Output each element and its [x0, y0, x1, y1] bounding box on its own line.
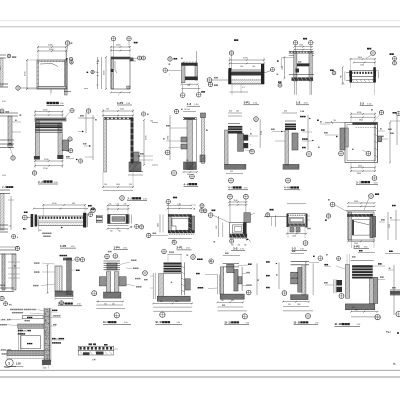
C2 left caps [31, 214, 34, 227]
A7 bubble [371, 51, 376, 56]
D-c foot [104, 292, 121, 298]
D-d left facade bars [153, 273, 155, 299]
svg-text:1500: 1500 [297, 304, 301, 306]
A1 outer square [37, 60, 67, 89]
A3 top band [181, 63, 197, 66]
sheet bottom border line 1 [0, 369, 400, 371]
svg-text:1400: 1400 [292, 235, 296, 237]
B4 foot [129, 162, 141, 172]
E1 parapet wall speckled [44, 308, 50, 362]
svg-text:700: 700 [106, 109, 109, 111]
C8 bottom [348, 240, 374, 242]
svg-text:1500: 1500 [360, 65, 364, 67]
svg-text:150: 150 [39, 230, 42, 232]
D-c bottom dims [96, 301, 123, 303]
D-g mid-left bubble [339, 293, 344, 298]
detail D-c 11-11截面图 [108, 251, 112, 252]
svg-text:1:50: 1:50 [246, 322, 250, 324]
A4 left bubble+leader [207, 78, 212, 83]
B2 bubble bottom [32, 171, 36, 175]
svg-text:1-2: 1-2 [187, 102, 192, 106]
C6 right wall dark [243, 223, 246, 238]
D-g slab dark striped [352, 265, 373, 278]
C4 bottom dims [108, 225, 129, 227]
C5 left dims [159, 215, 161, 233]
E1 gravel band [18, 324, 44, 328]
D-e bottom dims [218, 301, 244, 303]
D-c coping [104, 260, 121, 262]
C7 bubble bottom-right [303, 241, 308, 246]
C8 inner rect [352, 220, 370, 235]
B2 bubbles right [68, 137, 72, 141]
A7 body bar [350, 71, 376, 77]
C5 bubble bottom [172, 240, 176, 244]
D-a left element [55, 266, 62, 291]
A4 body bar [229, 70, 265, 84]
B2 wall feet [34, 156, 40, 160]
C6 bubble bottom-left [230, 239, 234, 243]
C6 corner arrow [246, 239, 248, 241]
D-a bottom dims [55, 298, 73, 300]
svg-text:7: 7 [250, 129, 251, 131]
D-e title [224, 320, 239, 324]
svg-text:618: 618 [231, 300, 234, 302]
svg-text:1100: 1100 [234, 200, 238, 202]
C5 bubble bottom-left [147, 233, 151, 237]
D-g bubble bottom-right [375, 314, 380, 319]
detail D-e 13-13截面图 [197, 259, 203, 260]
svg-text:600: 600 [352, 307, 355, 309]
B2 lower-right leader [66, 158, 74, 160]
A7 lower hatch band [350, 79, 375, 82]
svg-text:1:50: 1:50 [2, 101, 6, 103]
B4 leaders [136, 155, 153, 157]
C2 under leaders [38, 225, 40, 232]
E1 air gap box [21, 336, 41, 349]
A1 left dim [26, 60, 28, 89]
C8 left wall [348, 212, 352, 240]
svg-text:420: 420 [229, 111, 232, 113]
svg-text:2-P1: 2-P1 [177, 246, 183, 250]
svg-text:1-P1: 1-P1 [117, 101, 124, 105]
C2 bubble left [22, 215, 27, 220]
detail D-a 10-10截面图 [60, 255, 68, 256]
svg-text:2700: 2700 [261, 131, 263, 135]
D-d title [155, 320, 170, 324]
svg-text:700: 700 [240, 66, 243, 68]
detail D-f 13-13A section [266, 261, 270, 262]
D-d left wall [159, 274, 164, 297]
svg-text:2700: 2700 [168, 136, 170, 140]
E1 left leader texts [0, 319, 11, 321]
C7 bubble left [266, 213, 270, 217]
A4 bubble top [229, 51, 233, 55]
C7 left dims [274, 215, 276, 226]
detail A0 left-edge partial section [0, 54, 6, 56]
detail D-h right-edge section [389, 251, 393, 252]
svg-text:600: 600 [160, 301, 163, 303]
svg-text:2-2: 2-2 [233, 246, 238, 250]
detail C5 2-P1 plan [166, 199, 170, 203]
D-g left bracket blocks [334, 279, 336, 293]
A3 top hatch row [183, 61, 197, 62]
D-f bottom dims [283, 301, 309, 303]
B5 title [184, 182, 198, 186]
B7 left wall [225, 130, 229, 164]
B7 coping slab [228, 123, 240, 125]
A5 mid duct band [298, 61, 301, 62]
svg-text:240: 240 [244, 244, 247, 246]
bubble left margin lower [0, 109, 4, 113]
svg-text:2400: 2400 [48, 45, 54, 47]
svg-text:2.20: 2.20 [187, 85, 190, 87]
svg-text:200: 200 [288, 304, 291, 306]
A3 bottom dims [181, 83, 197, 85]
B2 bubble top-right [70, 108, 74, 112]
B2 right bracket [62, 140, 68, 151]
A5 joint blob [296, 69, 300, 73]
A1 right wall hatch [65, 60, 68, 95]
grid bubble A1 left [16, 86, 20, 90]
C5 body [168, 215, 191, 233]
B10 right bracket [378, 136, 382, 142]
C7 body [287, 214, 307, 227]
D-c bubbles top [105, 254, 110, 259]
C5 bubble right-top [200, 204, 204, 208]
svg-text:2200: 2200 [354, 201, 358, 203]
svg-text:240: 240 [124, 203, 127, 205]
A7 left labels [330, 70, 334, 71]
D-f right dim [309, 262, 319, 264]
D-f top bubble [313, 256, 315, 257]
svg-text:1:50: 1:50 [124, 322, 128, 324]
svg-text:120 200: 120 200 [184, 109, 190, 111]
B5 left dim [169, 115, 171, 160]
A1 bottom band [38, 86, 66, 89]
svg-text:700: 700 [150, 121, 153, 123]
B2 right wall [58, 123, 62, 156]
D-e left wall [220, 267, 224, 294]
svg-text:7: 7 [50, 94, 51, 96]
A5 top slab [289, 50, 314, 52]
B10 right wall light [374, 123, 377, 163]
B2 bottom dims [34, 159, 36, 168]
svg-text:1500: 1500 [282, 66, 284, 70]
C7 bottom band [288, 223, 305, 226]
A3 bottom bubbles [180, 93, 185, 98]
B10 square [345, 123, 378, 163]
D-a right leader [71, 269, 76, 271]
B10 bubble top-right [379, 110, 383, 114]
D-a main wall dotted [67, 258, 72, 295]
D-c bubble bottom [114, 313, 119, 318]
svg-text:1-P4: 1-P4 [114, 245, 120, 249]
D-e duct [234, 270, 238, 292]
C8 right duct [370, 214, 373, 238]
detail A2 section 1-P1 [134, 42, 138, 44]
svg-text:1:50: 1:50 [315, 322, 319, 324]
A5 top dims [294, 46, 312, 48]
svg-text:2-P2: 2-P2 [354, 244, 360, 248]
D-a foot [55, 291, 73, 296]
svg-text:1:50: 1:50 [77, 304, 81, 306]
A1 interior swing line [40, 64, 58, 67]
svg-text:1400: 1400 [158, 223, 160, 227]
A5 legs [295, 81, 312, 95]
C6 body [230, 223, 247, 238]
detail D-b left-edge section row D [2, 254, 5, 290]
sheet top border line [0, 26, 400, 28]
detail E2 lintel section A [89, 343, 93, 345]
detail C6 2-2 square plan [228, 194, 233, 199]
D-f right wall [302, 265, 305, 295]
A5 bottom slab [289, 74, 314, 76]
D-g left wall [345, 264, 349, 298]
svg-text:1-2: 1-2 [292, 246, 297, 250]
B2 coping bar [35, 118, 66, 121]
B8 title [284, 186, 299, 190]
A2 right bracket [130, 58, 134, 62]
svg-text:300: 300 [186, 160, 189, 162]
D-f foot [291, 295, 308, 300]
A2 joint block [111, 69, 114, 72]
B7 duct bar [238, 134, 244, 152]
A4 below ext [231, 84, 233, 95]
B4 bubble right-bottom [171, 170, 176, 175]
D-c walls [106, 272, 111, 293]
C5 right attachment band [192, 216, 195, 233]
B5 wall [187, 120, 193, 170]
svg-text:240: 240 [110, 230, 113, 232]
svg-text:7: 7 [118, 95, 119, 97]
D-c left bubble [92, 291, 97, 296]
C6 left bubble + text [212, 210, 216, 212]
detail B6 wall bar at tile edge [201, 113, 206, 118]
svg-text:5: 5 [58, 338, 59, 340]
svg-text:3600: 3600 [357, 173, 361, 175]
svg-text:150: 150 [342, 84, 345, 86]
svg-text:1:4: 1:4 [9, 226, 12, 228]
C5 left wall [168, 215, 171, 233]
B5 left brackets [181, 137, 187, 142]
svg-text:1:50: 1:50 [357, 324, 361, 326]
B2 top slab layers [36, 123, 63, 129]
B4 right wall [131, 118, 134, 164]
svg-text:2200: 2200 [120, 109, 124, 111]
B4 bottom dims [102, 172, 104, 188]
C8 body [346, 210, 376, 212]
D-f left dim [278, 262, 280, 289]
svg-text:700: 700 [118, 230, 121, 232]
C4 left annex [91, 208, 95, 209]
A5 bubble right [309, 41, 313, 45]
B10 inner bubble [366, 151, 371, 156]
B7 brackets right [244, 135, 249, 141]
D-c right bubble [143, 271, 148, 276]
detail C1 left-edge section [2, 186, 13, 189]
svg-text:1-P2: 1-P2 [60, 244, 66, 248]
D-e body top [223, 262, 239, 264]
svg-text:2000: 2000 [116, 184, 120, 186]
B2 title [38, 180, 53, 184]
D-c right leader texts [120, 262, 130, 265]
B8 duct [292, 133, 298, 150]
detail B8 4-4A section [282, 112, 297, 114]
B8 top bars [285, 120, 296, 122]
B5 top cap bars [183, 117, 197, 119]
svg-text:140: 140 [221, 300, 224, 302]
svg-text:1-P1: 1-P1 [244, 101, 251, 105]
svg-text:1.30: 1.30 [177, 204, 181, 206]
B7 right dim [259, 119, 261, 148]
D-d foot [157, 296, 190, 301]
sheet bottom border line 2 [0, 376, 400, 378]
svg-text:450: 450 [187, 174, 190, 176]
C6 left dims [218, 216, 220, 237]
detail B7 4-4剖面图 central [228, 112, 242, 114]
E1 coping flashing [23, 315, 44, 318]
C5 bottom dims [168, 238, 191, 240]
D-a title [58, 302, 73, 306]
svg-text:1.30: 1.30 [116, 203, 119, 205]
svg-text:600: 600 [98, 59, 100, 62]
A7 left cap [350, 71, 353, 83]
A5 bubble left [293, 41, 297, 45]
E1 foot [42, 360, 50, 365]
C7 lower blocks [290, 228, 294, 233]
B4 left annex [78, 117, 95, 119]
D-d slab dark striped [164, 263, 182, 274]
C7 right cap [306, 214, 308, 228]
svg-text:700: 700 [340, 75, 342, 78]
svg-text:1: 1 [8, 361, 10, 365]
svg-text:2.20: 2.20 [216, 226, 218, 229]
svg-text:200: 200 [236, 111, 239, 113]
D-c title [103, 320, 116, 324]
D-g foot [345, 304, 374, 310]
C6 left bubble pair [200, 209, 204, 213]
svg-text:L-7: L-7 [242, 87, 245, 89]
A2 left dims [97, 57, 99, 89]
E1 wall outer line [50, 308, 52, 362]
svg-text:2200: 2200 [389, 224, 391, 228]
svg-text:240: 240 [44, 367, 47, 369]
detail A8 right-edge bubbles [390, 53, 394, 55]
detail C7 1-2 window plan [270, 209, 274, 211]
B7 title [228, 186, 242, 190]
B8 wall [285, 130, 289, 165]
detail C4 1-P6 small plan [107, 205, 109, 215]
A4 right cap [261, 64, 264, 84]
detail B10 3-3截面图 big plan [350, 112, 352, 122]
A5 right wall [309, 51, 312, 81]
svg-text:240: 240 [109, 203, 112, 205]
D-f body [291, 260, 309, 262]
svg-text:A: A [289, 186, 291, 190]
D-d right bracket [185, 279, 190, 290]
A1 title [47, 102, 59, 104]
D-e right dim [256, 263, 258, 295]
E1 top bubbles [4, 302, 8, 306]
D-f central duct [298, 268, 302, 293]
A7 right cap [373, 67, 376, 82]
detail D-g 12-12 second large [324, 264, 328, 265]
C7 top dim [287, 203, 306, 205]
C6 inner rects [233, 225, 244, 233]
C2 body [38, 216, 85, 225]
D-e foot [220, 294, 244, 299]
svg-text:420: 420 [230, 171, 233, 173]
E1 text rows mid [18, 330, 31, 332]
C4 bubbles right-bottom [131, 226, 133, 228]
C7 inner window frame [289, 218, 304, 223]
B4 bubble + title [120, 196, 125, 201]
D-e left facade [218, 275, 220, 295]
A5 left ext line [282, 57, 294, 59]
D-d bubble bottom [160, 312, 165, 317]
svg-text:700: 700 [333, 120, 336, 122]
detail B11 right-edge annotations [393, 112, 397, 113]
A3 right end [195, 66, 198, 80]
C8 right dim [387, 212, 389, 240]
svg-text:2: 2 [41, 180, 43, 184]
B8 foot [283, 164, 299, 169]
detail B5 section 4-4 right of J-J [183, 111, 196, 113]
B5 foot [184, 162, 197, 170]
C5 bottom band [168, 230, 194, 233]
D-g right wall [369, 277, 373, 303]
E1 right leaders [51, 311, 59, 313]
B10 right dim [389, 123, 391, 163]
D-a bubbles top-right [75, 257, 79, 261]
D-f mid blocks [291, 272, 298, 277]
grid bubble A2 [111, 37, 115, 41]
C7 left cap [287, 214, 289, 227]
svg-text:420: 420 [284, 111, 287, 113]
detail C2 1-P2 long horizontal section [42, 204, 44, 216]
D-e bubble bottom [242, 314, 247, 319]
D-d bubbles top [162, 249, 167, 254]
D-g title [334, 322, 349, 326]
detail B1 left-edge section [0, 112, 18, 114]
grid bubble A1 top [65, 41, 69, 45]
svg-text:700: 700 [238, 244, 241, 246]
D-d bottom dims [153, 302, 192, 304]
svg-text:1:50: 1:50 [177, 322, 181, 324]
svg-text:1500: 1500 [175, 301, 179, 303]
detail C8 2-P2 square plan [369, 194, 374, 199]
grid bubble B4 top [141, 112, 145, 116]
C6 bottom band [230, 234, 248, 238]
B2 left wall [35, 121, 39, 158]
A3 bottom band [185, 77, 198, 81]
D-d interior text [171, 282, 173, 283]
mark E5 [397, 332, 399, 334]
C2 right bubble [86, 212, 90, 216]
B7 bubble right [250, 149, 255, 154]
svg-text:700: 700 [252, 66, 255, 68]
D-e right bubble [246, 290, 251, 295]
A2 bubbles right [138, 56, 142, 60]
svg-text:1-2: 1-2 [296, 101, 301, 105]
D-a left dim [47, 265, 49, 293]
B10 left duct [340, 128, 345, 150]
A2 body [111, 57, 130, 89]
B4 left wall [104, 118, 107, 173]
sheet top border line (light) [0, 20, 400, 22]
B10 left-top extension [325, 122, 345, 124]
D-d right wall [181, 262, 184, 295]
